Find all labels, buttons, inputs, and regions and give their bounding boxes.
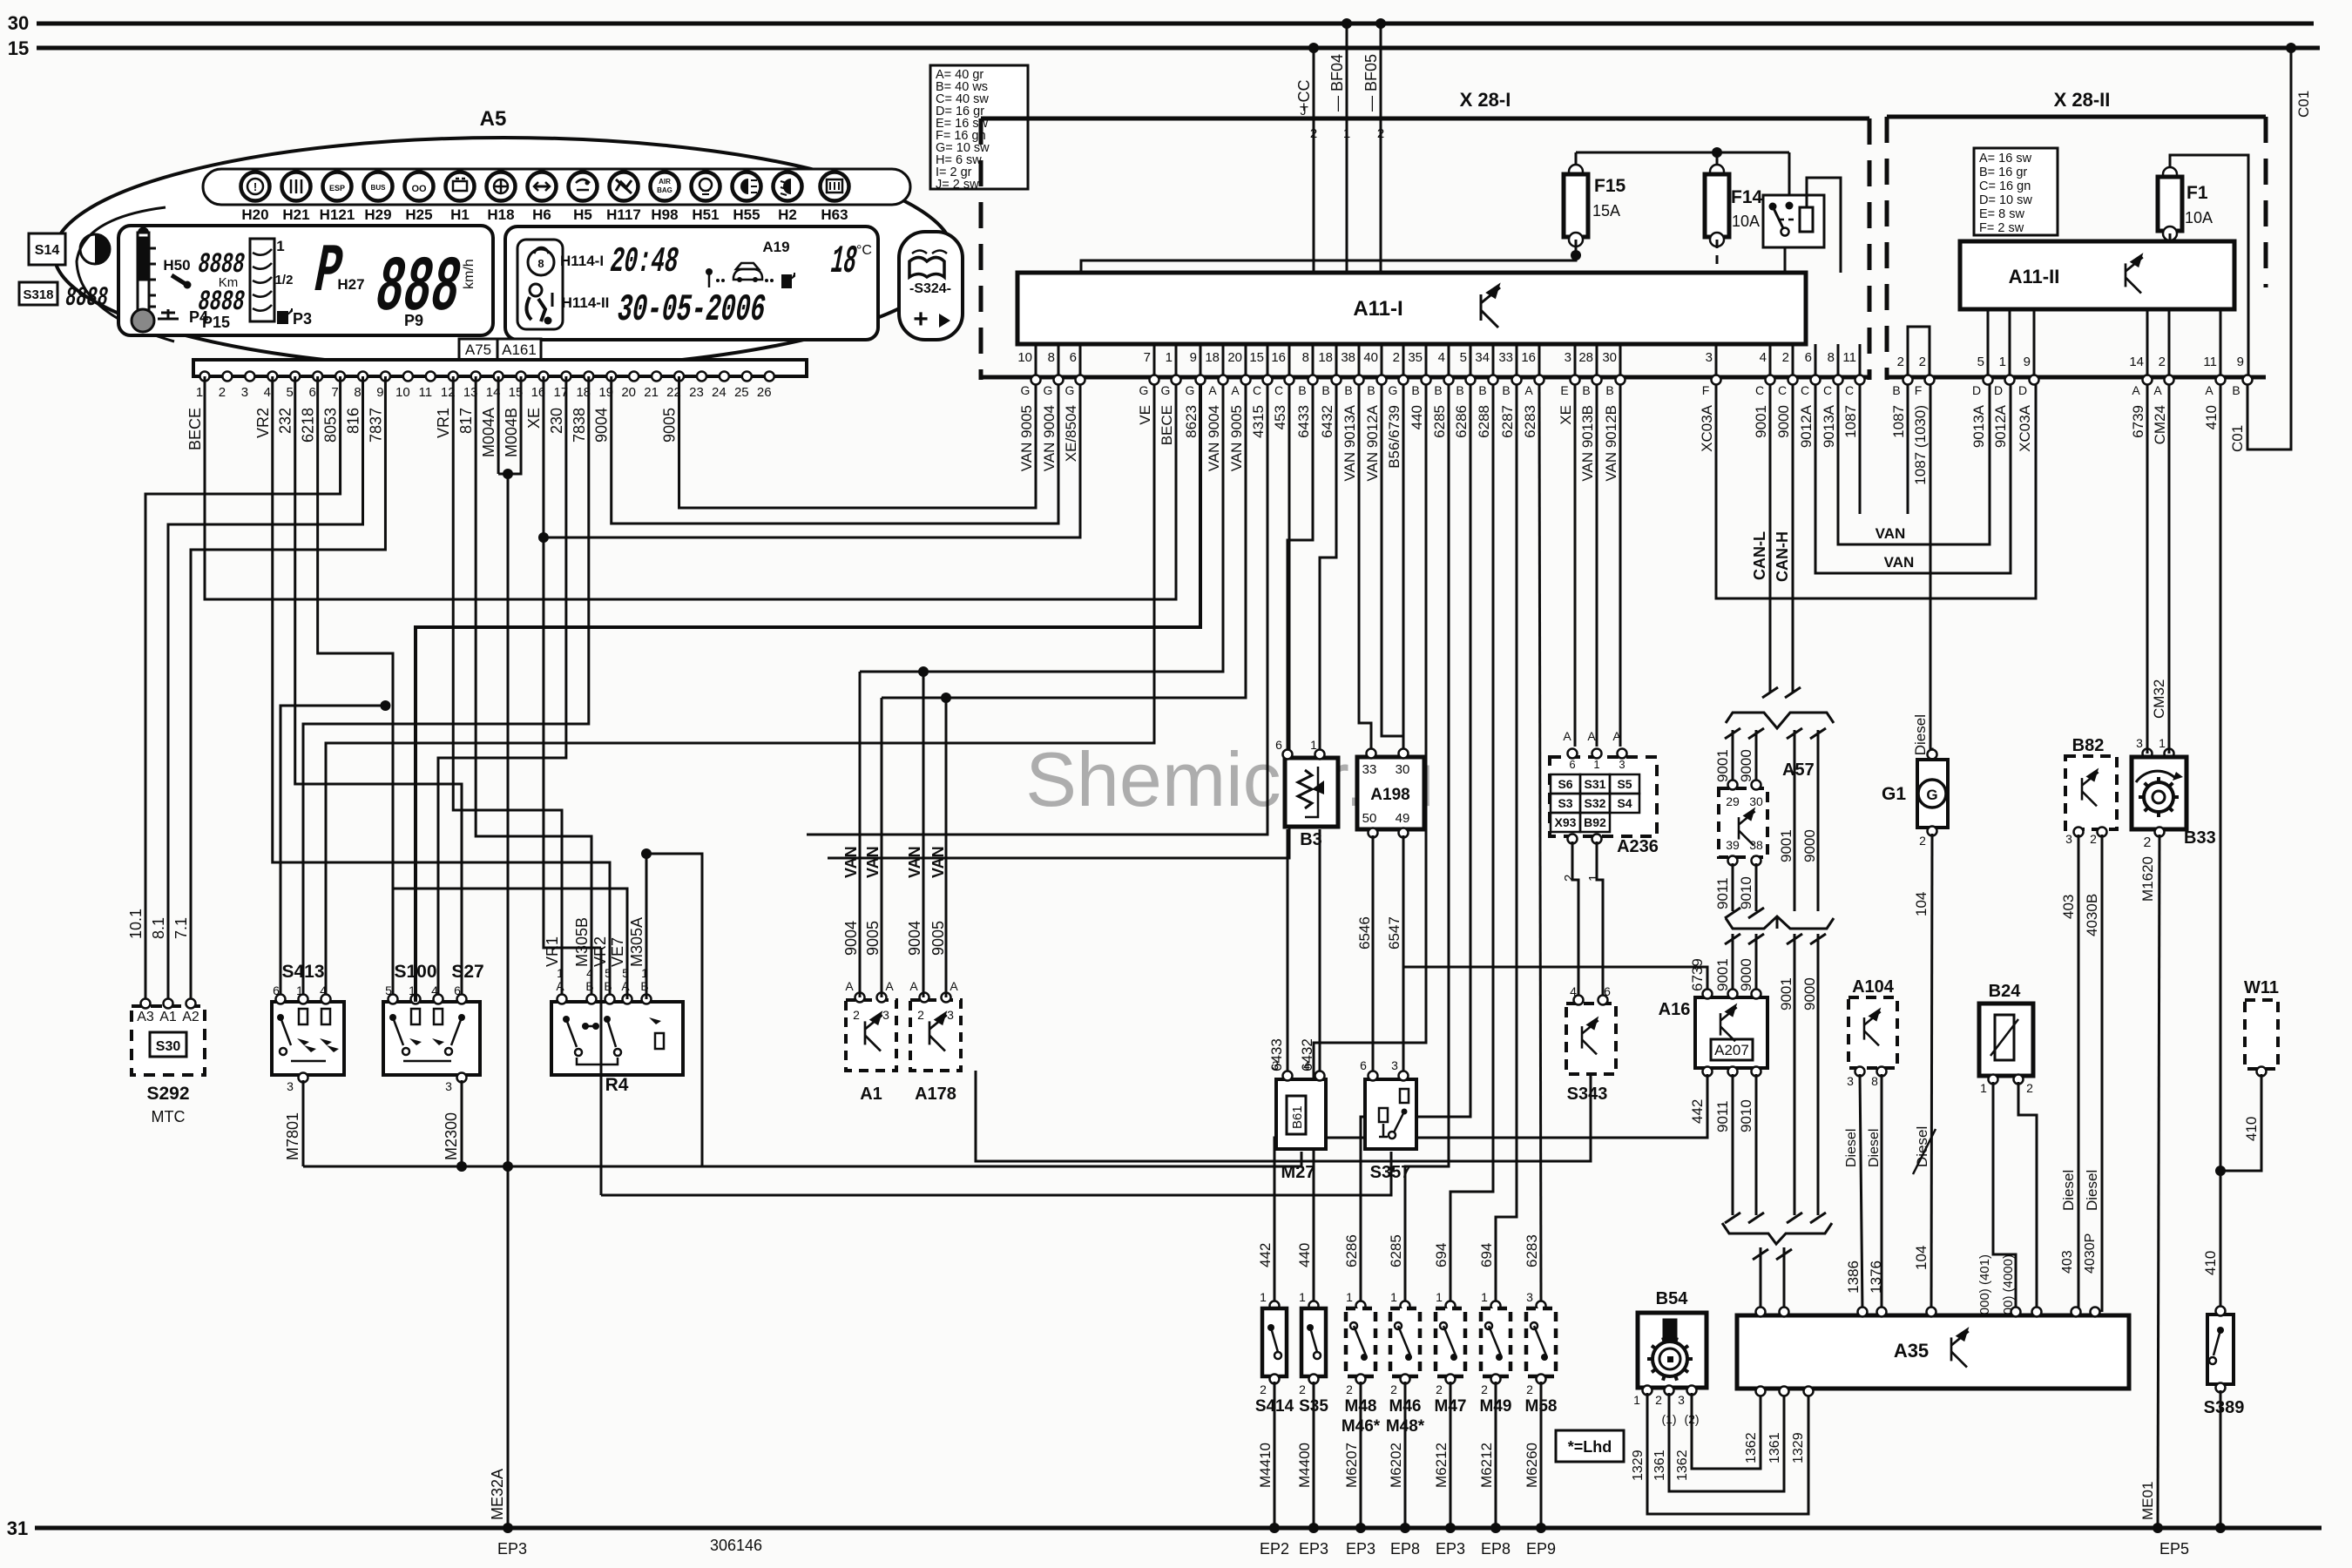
- feed wire BF05: [1380, 24, 1382, 118]
- sensor B24: [1979, 1004, 2033, 1076]
- svg-text:816: 816: [345, 408, 362, 434]
- svg-text:Diesel: Diesel: [2084, 1170, 2100, 1211]
- svg-text:4: 4: [264, 385, 271, 400]
- display unit A198: [1357, 757, 1424, 829]
- motor M27: [1276, 1079, 1326, 1149]
- svg-text:BAG: BAG: [657, 186, 672, 194]
- svg-text:50: 50: [1362, 811, 1377, 826]
- svg-text:30: 30: [8, 12, 29, 34]
- A11-I pin 20 VAN 9005: [1245, 344, 1247, 375]
- svg-text:H6: H6: [532, 206, 551, 223]
- svg-text:A: A: [950, 979, 958, 993]
- svg-text:A75: A75: [465, 341, 491, 358]
- svg-text:D: D: [1972, 383, 1981, 397]
- svg-text:442: 442: [1689, 1099, 1706, 1124]
- svg-text:VE7: VE7: [609, 937, 626, 967]
- svg-text:8: 8: [354, 385, 361, 400]
- svg-text:G1: G1: [1882, 784, 1906, 804]
- gateway A57: [1719, 788, 1767, 857]
- svg-text:8.1: 8.1: [150, 917, 167, 939]
- svg-text:18: 18: [1318, 350, 1333, 365]
- svg-text:6288: 6288: [1476, 405, 1492, 438]
- svg-text:1087: 1087: [1890, 405, 1907, 438]
- svg-text:H2: H2: [778, 206, 797, 223]
- svg-text:F: F: [1702, 383, 1710, 397]
- S318 box: [19, 282, 57, 305]
- wire 6432 to B3: [1320, 385, 1336, 754]
- svg-text:20: 20: [1227, 350, 1242, 365]
- wire 9012A VAN loop: [1815, 380, 2011, 573]
- svg-text:5: 5: [605, 966, 612, 980]
- svg-text:Diesel: Diesel: [1844, 1129, 1859, 1167]
- svg-text:1: 1: [196, 385, 203, 400]
- svg-text:X 28-II: X 28-II: [2054, 89, 2111, 111]
- feed wire +CC: [1313, 48, 1315, 118]
- lamp H1: [446, 172, 475, 201]
- svg-text:2: 2: [1919, 355, 1926, 369]
- svg-text:8: 8: [1828, 350, 1835, 365]
- lamp H20: [241, 172, 270, 201]
- svg-text:1: 1: [1346, 1290, 1353, 1304]
- svg-text:817: 817: [457, 408, 475, 434]
- svg-text:A11-I: A11-I: [1353, 297, 1402, 321]
- Lhd note box: [1556, 1430, 1624, 1462]
- svg-text:G: G: [1161, 383, 1171, 397]
- svg-text:4315: 4315: [1250, 405, 1267, 438]
- wire F15 to A11-I: [1571, 250, 1581, 260]
- svg-text:VAN 9004: VAN 9004: [1041, 405, 1058, 471]
- wire 9013A VAN loop: [1838, 380, 1990, 544]
- wires B24 to A35: [1993, 1082, 2016, 1312]
- svg-text:H117: H117: [606, 206, 641, 223]
- svg-text:1361: 1361: [1767, 1432, 1782, 1463]
- A11-I pin 8 VAN 9004: [1058, 344, 1060, 375]
- wire pin1 BECE: [205, 376, 1176, 599]
- svg-text:EP3: EP3: [1299, 1540, 1328, 1558]
- svg-text:P15: P15: [202, 314, 230, 331]
- svg-text:CAN-H: CAN-H: [1774, 531, 1791, 582]
- svg-text:W11: W11: [2244, 978, 2279, 997]
- svg-text:A: A: [909, 979, 918, 993]
- svg-text:A57: A57: [1782, 760, 1815, 780]
- svg-text:A: A: [1208, 383, 1217, 397]
- CAN break slashes: [1762, 687, 1778, 698]
- wire M58 to ground: [1540, 1382, 1543, 1528]
- wire CAN-L: [1769, 385, 1772, 693]
- svg-text:4: 4: [1438, 350, 1445, 365]
- ground bus lower left: [303, 1166, 1301, 1168]
- svg-text:3: 3: [1272, 1058, 1279, 1072]
- bus 31 line: [35, 1526, 2322, 1531]
- svg-text:7: 7: [331, 385, 338, 400]
- A11-I pin 7 VE: [1153, 344, 1156, 375]
- svg-text:A1: A1: [159, 1010, 177, 1024]
- svg-text:1/2: 1/2: [275, 273, 294, 287]
- svg-text:2: 2: [1655, 1393, 1662, 1407]
- svg-text:A: A: [1563, 729, 1571, 743]
- wire M48/M46* to ground: [1360, 1382, 1362, 1528]
- svg-text:°C: °C: [856, 243, 872, 258]
- connector X28-I bottom line: [981, 375, 1869, 380]
- twist brace upper: [1726, 713, 1834, 728]
- A35 top terminals: [1756, 1308, 1766, 1317]
- svg-text:9005: 9005: [929, 921, 947, 956]
- wire VE1 S413: [326, 380, 1154, 1002]
- svg-text:G: G: [1065, 383, 1075, 397]
- wire M49 to ground: [1495, 1382, 1497, 1528]
- wires B82 down: [2078, 835, 2080, 1312]
- wires 9011 9010 below A16: [1732, 1074, 1734, 1215]
- svg-text:A: A: [2132, 383, 2140, 397]
- svg-text:4030B: 4030B: [2084, 894, 2100, 936]
- wire VAN9013A to A198: [1359, 385, 1371, 754]
- svg-text:23: 23: [689, 385, 704, 400]
- wire C01 up to rail 15: [2247, 48, 2291, 449]
- wire pin14 M004A: [497, 376, 500, 474]
- svg-text:4: 4: [1303, 1058, 1310, 1072]
- seatbelt icon: [530, 284, 542, 296]
- svg-text:31: 31: [7, 1517, 28, 1539]
- wire W11 410: [2220, 1074, 2261, 1171]
- bypass 9000: [1817, 730, 1820, 911]
- svg-text:B: B: [1605, 383, 1613, 397]
- svg-text:B: B: [1582, 383, 1590, 397]
- svg-text:38: 38: [1749, 838, 1763, 852]
- bus 15 line: [37, 46, 2320, 51]
- wire pin18 7838 to S413: [303, 376, 589, 1002]
- S324 scroll control: [899, 232, 963, 340]
- svg-text:2: 2: [1260, 1382, 1267, 1396]
- svg-text:S343: S343: [1567, 1085, 1608, 1104]
- svg-text:9012A: 9012A: [1992, 404, 2009, 448]
- A11-I pin 6 XE/8504: [1079, 344, 1082, 375]
- svg-text:9013A: 9013A: [1821, 404, 1837, 448]
- wire gauge legend X28-II: [1974, 148, 2058, 235]
- svg-text:OO: OO: [411, 184, 427, 194]
- svg-text:XC03A: XC03A: [1699, 404, 1715, 452]
- svg-text:2: 2: [2144, 835, 2152, 850]
- svg-text:A: A: [2153, 383, 2162, 397]
- svg-text:1: 1: [1260, 1290, 1267, 1304]
- svg-text:26: 26: [757, 385, 772, 400]
- svg-text:M7801: M7801: [284, 1112, 301, 1160]
- svg-text:2: 2: [1346, 1382, 1353, 1396]
- wire 6288 694 to M47: [1450, 385, 1493, 1303]
- wire CAN-H: [1792, 385, 1794, 693]
- svg-text:EP9: EP9: [1526, 1540, 1556, 1558]
- svg-text:CM24: CM24: [2152, 405, 2168, 444]
- svg-text:10: 10: [1017, 350, 1032, 365]
- svg-text:1087: 1087: [1842, 405, 1859, 438]
- svg-text:4030P: 4030P: [2083, 1233, 2098, 1274]
- rheostat B3: [1285, 758, 1338, 827]
- lamp H51: [692, 172, 720, 201]
- svg-text:H63: H63: [821, 206, 848, 223]
- feed wire BF04: [1346, 24, 1348, 118]
- relay coil wire: [1807, 178, 1841, 273]
- svg-text:39: 39: [1726, 838, 1740, 852]
- svg-text:49: 49: [1396, 811, 1410, 826]
- svg-text:6286: 6286: [1453, 405, 1470, 438]
- wire A1 9005: [881, 698, 883, 997]
- svg-text:453: 453: [1272, 405, 1288, 429]
- svg-text:3: 3: [882, 1008, 889, 1022]
- svg-text:3: 3: [2136, 736, 2143, 750]
- wire XE branch down: [544, 537, 601, 948]
- svg-text:F: F: [1915, 383, 1923, 397]
- svg-text:1: 1: [1980, 1081, 1987, 1095]
- wire B56 6739 to A16: [1403, 385, 1707, 997]
- svg-text:VAN 9004: VAN 9004: [1206, 405, 1222, 471]
- svg-text:15: 15: [8, 37, 29, 59]
- svg-text:9010: 9010: [1738, 1099, 1754, 1132]
- wire 410 main: [2220, 385, 2222, 1311]
- svg-text:10.1: 10.1: [127, 909, 145, 939]
- LCD panel right: [505, 226, 878, 340]
- svg-text:694: 694: [1433, 1243, 1450, 1267]
- svg-text:6546: 6546: [1356, 916, 1373, 950]
- connector X28-I outline: [981, 117, 1869, 121]
- svg-text:2: 2: [1299, 1382, 1306, 1396]
- ECU A35 box: [1737, 1315, 2129, 1389]
- wire S414 to ground: [1274, 1382, 1276, 1528]
- svg-text:3: 3: [1526, 1290, 1533, 1304]
- svg-text:ESP: ESP: [329, 184, 345, 193]
- bus 30 line: [37, 22, 2314, 26]
- svg-text:1362: 1362: [1744, 1432, 1759, 1463]
- svg-text:VAN: VAN: [929, 846, 947, 878]
- svg-text:8: 8: [1048, 350, 1055, 365]
- wire F14 dashed into A11-I: [1716, 240, 1719, 344]
- wire 4315: [807, 385, 1267, 835]
- svg-text:1329: 1329: [1791, 1432, 1806, 1463]
- wire VAN9012B to A236: [1619, 385, 1622, 747]
- svg-text:B54: B54: [1656, 1289, 1689, 1308]
- svg-text:VAN: VAN: [1884, 554, 1915, 571]
- svg-text:11: 11: [419, 385, 433, 400]
- svg-text:2: 2: [1782, 350, 1789, 365]
- svg-text:H20: H20: [241, 206, 268, 223]
- svg-text:6: 6: [1275, 738, 1282, 752]
- svg-text:403: 403: [2060, 895, 2077, 919]
- svg-text:H1: H1: [450, 206, 470, 223]
- coolant thermometer: [138, 233, 149, 313]
- svg-text:— BF04: — BF04: [1328, 54, 1346, 112]
- svg-text:km/h: km/h: [462, 259, 476, 289]
- wire VAN9013B to A236: [1596, 385, 1598, 747]
- svg-text:C: C: [1253, 383, 1261, 397]
- svg-text:B24: B24: [1989, 982, 2022, 1001]
- svg-text:410: 410: [2243, 1117, 2260, 1141]
- svg-text:VAN 9013B: VAN 9013B: [1579, 405, 1596, 482]
- svg-text:20:48: 20:48: [606, 242, 681, 282]
- svg-text:P9: P9: [404, 312, 423, 329]
- svg-text:ME01: ME01: [2139, 1482, 2156, 1520]
- svg-text:H51: H51: [692, 206, 719, 223]
- wire A178 9004: [923, 672, 925, 997]
- A11-I pin 5 6286: [1470, 344, 1472, 375]
- svg-text:CAN-L: CAN-L: [1751, 531, 1768, 580]
- svg-text:S14: S14: [35, 243, 60, 258]
- svg-text:A198: A198: [1370, 786, 1409, 804]
- svg-text:EP3: EP3: [1436, 1540, 1465, 1558]
- wires into A11-I from feeds: [1313, 118, 1315, 273]
- svg-text:F15: F15: [1594, 176, 1626, 196]
- svg-text:B33: B33: [2184, 828, 2216, 848]
- svg-text:10A: 10A: [1732, 213, 1760, 230]
- wire 6286 to M48: [1361, 385, 1470, 1303]
- svg-text:A: A: [1612, 729, 1621, 743]
- svg-text:F14: F14: [1731, 187, 1763, 207]
- svg-text:1: 1: [1310, 738, 1317, 752]
- svg-text:VAN 9012B: VAN 9012B: [1603, 405, 1619, 482]
- svg-text:M305B: M305B: [573, 917, 591, 967]
- svg-text:VAN 9013A: VAN 9013A: [1342, 404, 1358, 481]
- svg-text:25: 25: [734, 385, 749, 400]
- svg-text:2: 2: [2090, 832, 2097, 846]
- S343 bottom run: [976, 1071, 1591, 1161]
- svg-text:J= 2 sw: J= 2 sw: [936, 178, 979, 192]
- svg-text:EP3: EP3: [497, 1540, 527, 1558]
- svg-text:9: 9: [376, 385, 383, 400]
- wire 6283 to M58: [1539, 385, 1541, 1303]
- svg-text:6285: 6285: [1388, 1234, 1404, 1267]
- svg-text:VR1: VR1: [435, 408, 452, 438]
- svg-text:9013A: 9013A: [1970, 404, 1987, 448]
- connector X28-II bottom line: [1887, 375, 2266, 380]
- svg-text:B: B: [2232, 383, 2240, 397]
- svg-text:6285: 6285: [1431, 405, 1448, 438]
- svg-text:EP2: EP2: [1260, 1540, 1289, 1558]
- svg-text:1: 1: [557, 966, 564, 980]
- svg-text:7838: 7838: [571, 408, 588, 443]
- svg-text:H5: H5: [573, 206, 592, 223]
- svg-text:1362: 1362: [1675, 1450, 1690, 1481]
- svg-text:G: G: [1021, 383, 1031, 397]
- svg-text:S31: S31: [1585, 777, 1606, 791]
- speed sensor B33: [2143, 749, 2153, 759]
- A11-I pin 33 6287: [1516, 344, 1518, 375]
- svg-text:104: 104: [1913, 1246, 1930, 1270]
- wire S35 to ground: [1313, 1382, 1315, 1528]
- switch unit S413: [272, 1002, 344, 1075]
- svg-text:33: 33: [1362, 762, 1377, 777]
- svg-text:6287: 6287: [1499, 405, 1516, 438]
- svg-text:B: B: [1456, 383, 1463, 397]
- A11-I pin 10 VAN 9005: [1035, 344, 1037, 375]
- svg-text:694: 694: [1478, 1243, 1495, 1267]
- svg-text:D: D: [1994, 383, 2003, 397]
- svg-text:2: 2: [1393, 350, 1400, 365]
- wire pin19 9004 to A11-I: [612, 376, 1058, 524]
- svg-text:6283: 6283: [1524, 1234, 1540, 1267]
- svg-text:24: 24: [712, 385, 727, 400]
- wire 440 to S35: [1314, 385, 1426, 1303]
- fuse F15: [1569, 165, 1583, 179]
- svg-text:A: A: [2205, 383, 2213, 397]
- svg-text:EP8: EP8: [1390, 1540, 1420, 1558]
- svg-text:1: 1: [1436, 1290, 1443, 1304]
- svg-text:ME32A: ME32A: [489, 1469, 506, 1520]
- svg-text:2: 2: [2159, 355, 2166, 369]
- lamp H18: [487, 172, 516, 201]
- wire Diesel to G1: [1930, 385, 1932, 754]
- svg-text:C: C: [1823, 383, 1832, 397]
- svg-text:F1: F1: [2186, 183, 2208, 203]
- A11-I pin 4 9001: [1769, 344, 1772, 375]
- svg-text:B: B: [1411, 383, 1419, 397]
- A11-I pin 34 6288: [1492, 344, 1495, 375]
- svg-text:CM32: CM32: [2151, 679, 2167, 719]
- svg-text:H21: H21: [282, 206, 309, 223]
- svg-text:9005: 9005: [661, 408, 679, 443]
- relay output wire: [1784, 247, 1787, 273]
- svg-text:410: 410: [2202, 1251, 2219, 1275]
- wire XE to A236: [1574, 385, 1577, 747]
- svg-text:35: 35: [1408, 350, 1423, 365]
- wire 442 from A16: [1274, 1074, 1707, 1303]
- fuse feed rail: [1576, 152, 1789, 154]
- fuse F14: [1710, 165, 1724, 179]
- connector X28-II outline: [1887, 115, 2266, 119]
- A11-I pin 16 6283: [1538, 344, 1541, 375]
- svg-text:6433: 6433: [1295, 405, 1312, 438]
- svg-text:3: 3: [241, 385, 248, 400]
- link M305A to bus riser: [646, 854, 702, 1166]
- horn W11: [2245, 1000, 2278, 1069]
- wire pin7 8053 to S292: [145, 376, 341, 1002]
- svg-text:B56/6739: B56/6739: [1386, 405, 1402, 469]
- A11-I pin 6 9012A: [1815, 344, 1817, 375]
- svg-text:A: A: [1587, 729, 1596, 743]
- svg-text:9000: 9000: [1801, 977, 1818, 1010]
- svg-text:30-05-2006: 30-05-2006: [613, 289, 769, 332]
- svg-text:9004: 9004: [593, 408, 611, 443]
- svg-text:A: A: [845, 979, 854, 993]
- svg-text:306146: 306146: [710, 1537, 762, 1554]
- lamp H2: [774, 172, 802, 201]
- svg-text:9001: 9001: [1714, 749, 1731, 782]
- svg-text:1: 1: [1481, 1290, 1488, 1304]
- ECU A11-I box: [1017, 273, 1806, 344]
- wire A1 9004: [859, 672, 862, 997]
- svg-text:1361: 1361: [1652, 1450, 1667, 1481]
- svg-text:H114-I: H114-I: [560, 253, 604, 269]
- svg-text:6218: 6218: [300, 408, 317, 443]
- wire S389 to ground: [2220, 1390, 2222, 1528]
- svg-text:1087 (1030): 1087 (1030): [1912, 405, 1929, 485]
- svg-text:C: C: [1274, 383, 1283, 397]
- svg-text:VAN: VAN: [1876, 525, 1906, 542]
- wire ME32A vertical: [507, 474, 510, 1528]
- svg-text:440: 440: [1409, 405, 1425, 429]
- svg-text:410: 410: [2203, 405, 2220, 429]
- svg-text:+: +: [913, 305, 929, 334]
- svg-text:9: 9: [2024, 355, 2031, 369]
- svg-text:X 28-I: X 28-I: [1460, 89, 1511, 111]
- svg-text:38: 38: [1341, 350, 1355, 365]
- svg-text:8: 8: [1302, 350, 1309, 365]
- svg-text:M27: M27: [1281, 1163, 1315, 1182]
- svg-text:G: G: [1044, 383, 1053, 397]
- wire pin15 M004B: [498, 376, 521, 474]
- svg-text:40: 40: [1363, 350, 1378, 365]
- wire gauge legend X28-I: [930, 65, 1028, 189]
- svg-text:G: G: [1389, 383, 1398, 397]
- wires A104 to A35: [1860, 1074, 1862, 1312]
- A11-I pin 4 6285: [1448, 344, 1450, 375]
- wire VE7 up: [392, 889, 627, 999]
